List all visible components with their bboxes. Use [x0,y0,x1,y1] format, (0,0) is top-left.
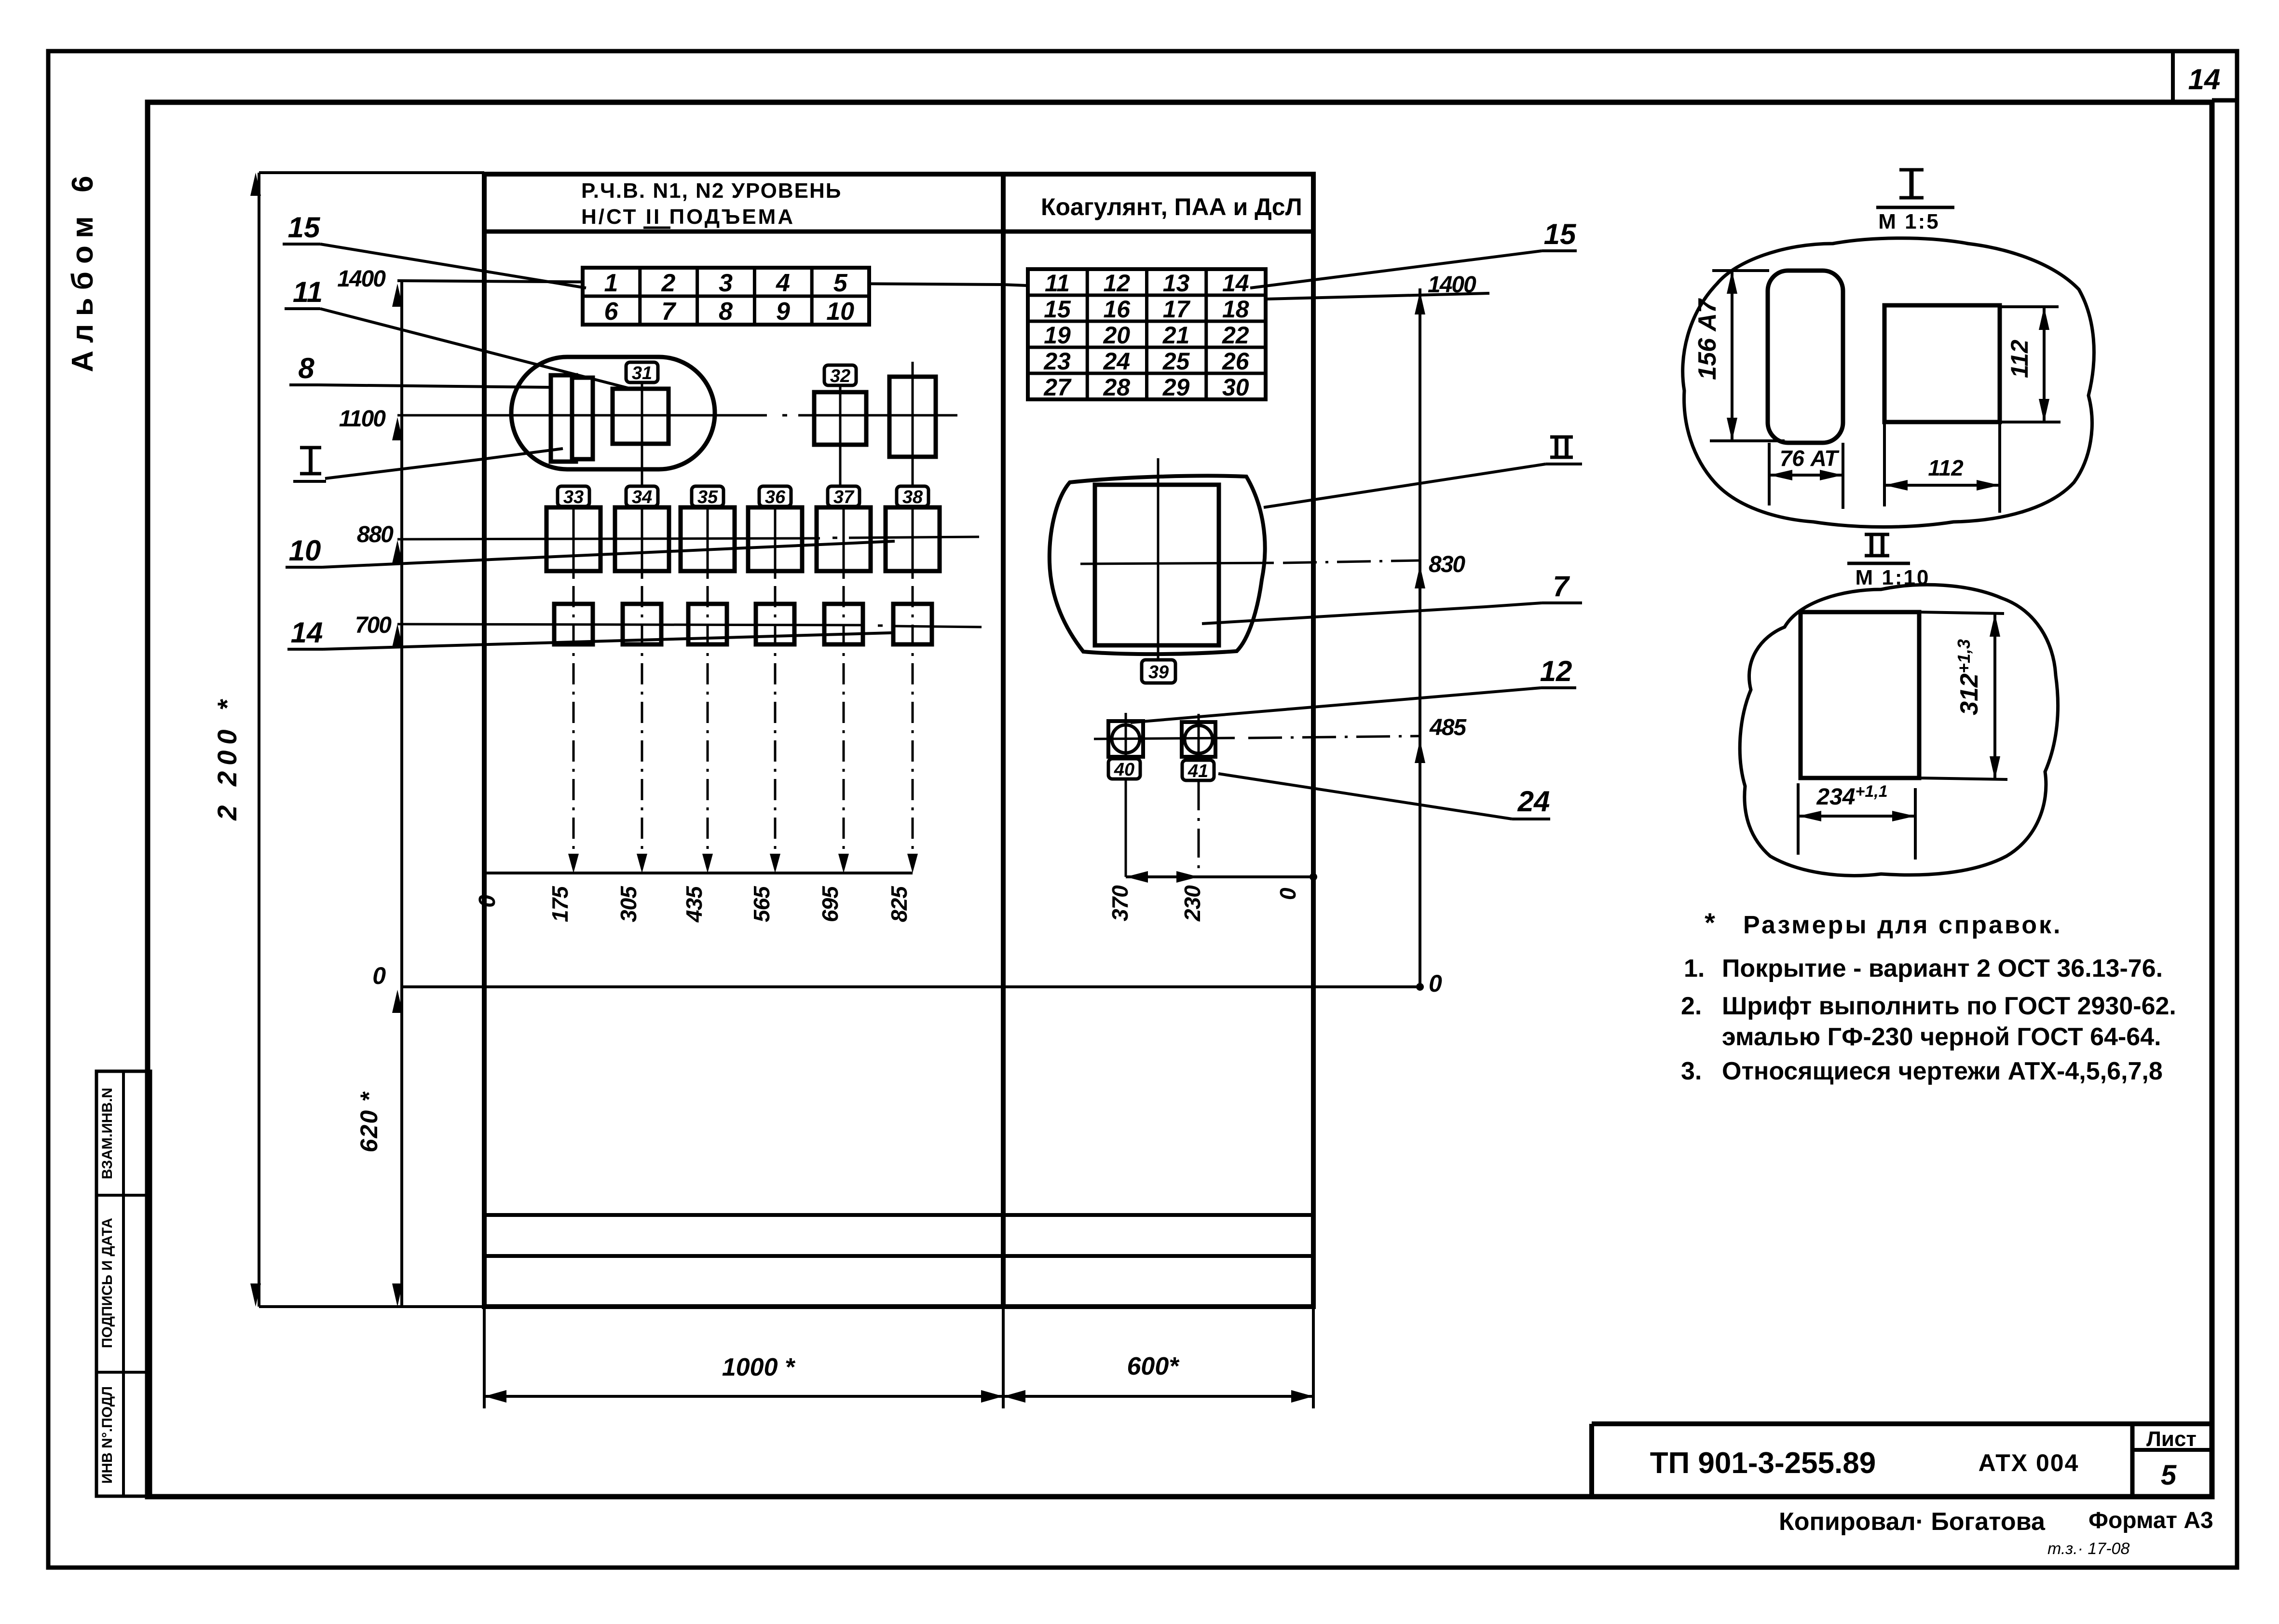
svg-text:31: 31 [632,363,652,383]
svg-text:Покрытие - вариант 2 ОСТ 36.13: Покрытие - вариант 2 ОСТ 36.13-76. [1722,955,2163,983]
detail I square right extensions [2000,305,2059,308]
svg-text:ВЗАМ.ИНВ.N: ВЗАМ.ИНВ.N [99,1088,115,1179]
svg-text:0: 0 [1275,887,1300,900]
svg-text:15: 15 [1544,218,1577,250]
title block outline [1592,1421,2211,1426]
svg-text:370: 370 [1107,885,1133,921]
column line tall rect [912,362,914,486]
svg-text:М 1:5: М 1:5 [1878,210,1939,233]
panel header separator [484,230,1313,234]
svg-text:1000 *: 1000 * [722,1353,796,1381]
svg-text:14: 14 [2188,63,2221,96]
centerline level 830 [1080,563,1274,564]
column line item 31 [641,382,643,486]
svg-text:16: 16 [1103,296,1131,323]
svg-text:435: 435 [682,886,707,923]
display 39 pillow outline [1050,476,1265,655]
label 41 [1182,760,1214,780]
detail I width dimension 76 AT [1769,474,1843,477]
svg-text:Формат А3: Формат А3 [2088,1508,2213,1533]
svg-text:14: 14 [1222,270,1249,297]
sheet number box top-right [2171,51,2175,100]
inner drawing frame [148,102,2212,1497]
svg-text:23: 23 [1043,348,1071,375]
svg-text:12: 12 [1540,655,1572,687]
coordinate baseline left panel [484,872,913,874]
knob 40 [1108,721,1143,757]
svg-text:112: 112 [2006,340,2033,378]
svg-text:ИНВ N°.ПОДЛ: ИНВ N°.ПОДЛ [99,1386,115,1484]
label 37 [828,486,860,506]
label 36 [759,486,791,506]
lower instrument box col 4 [756,604,794,644]
table cells 11-30 [1028,269,1266,399]
leader I detail mark [309,448,313,474]
svg-text:156 А7: 156 А7 [1693,298,1721,380]
label 39 [1142,660,1175,683]
svg-text:112: 112 [1928,455,1964,480]
right levels dimension line [1419,288,1421,987]
svg-text:230: 230 [1180,885,1205,922]
label 38 [897,486,928,506]
svg-text:1100: 1100 [339,406,386,432]
kick plate line 2 [484,1254,1313,1258]
svg-text:39: 39 [1148,662,1169,682]
panel front outline [484,174,1313,1307]
column line item 32 [839,392,842,486]
svg-text:0: 0 [475,895,500,908]
svg-text:13: 13 [1163,270,1190,297]
svg-text:1400: 1400 [337,266,386,292]
instrument box 37 [817,507,871,571]
zero level line [400,985,1420,988]
detail I square width extensions [1883,422,1886,506]
detail II window rectangle [1801,612,1919,778]
svg-text:19: 19 [1044,322,1071,349]
recorder window pair [551,375,576,462]
column centerline 6 [912,506,914,579]
svg-text:305: 305 [616,886,641,922]
svg-text:8: 8 [719,298,733,326]
centerline level 700 [397,624,863,625]
svg-text:10: 10 [289,534,321,567]
top extension line [259,171,484,174]
svg-text:28: 28 [1103,374,1130,401]
svg-text:2 200 *: 2 200 * [212,694,242,821]
svg-text:40: 40 [1114,760,1134,780]
svg-text:24: 24 [1517,785,1550,818]
svg-text:33: 33 [563,487,584,507]
svg-text:ПОДПИСЬ И ДАТА: ПОДПИСЬ И ДАТА [99,1218,115,1348]
column centerline 1 [573,506,575,579]
svg-text:24: 24 [1103,348,1130,375]
svg-text:Лист: Лист [2146,1427,2197,1451]
svg-text:830: 830 [1429,552,1465,577]
detail II height extension lines [1919,612,2004,614]
svg-text:Коагулянт, ПАА и ДсЛ: Коагулянт, ПАА и ДсЛ [1041,193,1302,220]
svg-text:Р.Ч.В. N1, N2 УРОВЕНЬ: Р.Ч.В. N1, N2 УРОВЕНЬ [581,179,842,203]
svg-text:Альбом 6: Альбом 6 [66,168,99,372]
svg-text:825: 825 [887,886,912,922]
svg-text:76 АТ: 76 АТ [1780,446,1840,471]
level line 1400 across panels [397,281,1003,285]
bottom extension line [259,1305,484,1308]
detail I square width dimension 112 [1884,484,2000,487]
svg-text:35: 35 [697,487,718,507]
instrument square 32 [814,392,866,445]
svg-text:17: 17 [1163,296,1191,323]
detail I blob outline [1683,238,2094,527]
detail I height dimension 156 A7 [1731,271,1733,441]
svg-text:26: 26 [1222,348,1250,375]
svg-text:7: 7 [1553,570,1570,602]
svg-text:3: 3 [719,269,733,297]
lower instrument box col 6 [893,604,932,644]
svg-text:18: 18 [1222,296,1249,323]
column centerline 5 [843,506,845,579]
kick plate line 1 [484,1213,1313,1217]
svg-text:700: 700 [355,613,392,638]
svg-text:9: 9 [776,298,790,326]
stamp column box [96,1071,150,1496]
svg-text:0: 0 [1429,970,1442,997]
centerline level 880 [397,538,820,539]
lower instrument box col 3 [688,604,727,644]
svg-text:695: 695 [818,886,843,922]
lower instrument box col 2 [623,604,661,644]
label 35 [692,486,723,506]
column centerline 3 [707,506,709,579]
column centerline 4 [774,506,777,579]
svg-text:т.з.· 17-08: т.з.· 17-08 [2047,1540,2129,1558]
svg-text:1: 1 [604,269,618,297]
panel divider [1001,174,1006,1307]
instrument box 35 [681,507,735,571]
detail II blob outline [1740,585,2058,875]
svg-text:2: 2 [661,269,675,297]
svg-text:Шрифт выполнить по ГОСТ 2930-6: Шрифт выполнить по ГОСТ 2930-62. [1722,992,2176,1020]
svg-text:175: 175 [547,886,573,922]
stamp divider 2 [96,1371,150,1374]
detail II title [1870,534,1873,556]
column centerline 2 [641,506,643,579]
svg-text:11: 11 [293,276,323,308]
svg-text:5: 5 [2161,1460,2177,1491]
detail II width extension lines [1797,783,1800,855]
width dimension line 1000 and 600 [483,1307,486,1408]
svg-text:2.: 2. [1681,992,1702,1020]
svg-text:7: 7 [661,298,676,326]
centerline level 485 [1094,738,1235,739]
svg-text:11: 11 [1045,270,1070,297]
detail I title [1910,170,1914,198]
svg-text:600*: 600* [1127,1352,1180,1380]
svg-text:8: 8 [298,352,314,384]
svg-text:29: 29 [1162,374,1190,401]
knob dimension verticals [1125,779,1127,877]
svg-text:880: 880 [357,522,394,547]
svg-text:30: 30 [1222,374,1249,401]
svg-text:27: 27 [1043,374,1072,401]
svg-text:34: 34 [632,487,652,507]
svg-text:485: 485 [1429,715,1467,740]
levels dimension line [400,281,403,1307]
svg-text:ТП 901-3-255.89: ТП 901-3-255.89 [1650,1447,1876,1480]
svg-text:1400: 1400 [1428,272,1476,298]
svg-text:15: 15 [1044,296,1071,323]
svg-text:20: 20 [1103,322,1130,349]
svg-text:565: 565 [749,886,774,922]
svg-text:37: 37 [833,487,855,507]
instrument box 33 [546,507,600,571]
svg-text:*: * [1705,907,1715,938]
leader II detail mark [1555,437,1558,457]
detail I square height dimension 112 [2043,307,2046,422]
svg-text:0: 0 [372,962,386,989]
svg-text:22: 22 [1222,322,1249,349]
detail I height extension lines [1712,269,1769,272]
stamp divider vertical [122,1071,125,1496]
svg-text:15: 15 [288,211,321,244]
lower instrument box col 5 [824,604,863,644]
svg-text:38: 38 [902,487,923,507]
instrument group I stadium outline [511,357,715,469]
svg-text:4: 4 [776,269,790,297]
detail II height dimension 312+1,3 [1993,614,1996,779]
label 32 [824,365,856,385]
svg-text:1.: 1. [1684,955,1705,983]
stamp divider 1 [96,1194,150,1197]
svg-text:36: 36 [765,487,786,507]
lamp table 1-10 grid [583,268,869,325]
svg-text:14: 14 [291,616,323,649]
svg-text:41: 41 [1187,761,1208,781]
svg-text:21: 21 [1162,322,1190,349]
instrument square 31 [613,389,669,444]
instrument box 34 [615,507,669,571]
instrument box 36 [748,507,802,571]
centerline level 1100 [397,414,767,417]
display 39 window [1095,485,1219,645]
svg-text:Относящиеся чертежи АТХ-4,5,6: Относящиеся чертежи АТХ-4,5,6,7,8 [1722,1057,2163,1085]
svg-text:5: 5 [833,269,848,297]
lower instrument box col 1 [554,604,593,644]
svg-text:12: 12 [1103,270,1130,297]
svg-text:32: 32 [830,366,850,386]
detail I window width extensions [1768,443,1771,505]
label 31 [626,362,658,382]
svg-text:3.: 3. [1681,1057,1702,1085]
svg-text:10: 10 [826,298,854,326]
svg-text:Размеры для справок.: Размеры для справок. [1743,911,2062,939]
label 33 [558,486,589,506]
label 40 [1108,759,1140,779]
knob 41 [1182,722,1215,757]
detail II width dimension 234+1,1 [1798,815,1915,818]
svg-text:Копировал· Богатова: Копировал· Богатова [1779,1508,2046,1536]
knob coordinate baseline [1126,875,1313,878]
instrument tall rectangle right [889,377,936,457]
label 34 [626,486,658,506]
svg-text:АТХ 004: АТХ 004 [1979,1449,2079,1476]
instrument box 38 [886,507,940,571]
detail I square [1884,305,2000,422]
detail I rounded window [1768,271,1843,443]
svg-text:25: 25 [1162,348,1190,375]
svg-text:эмалью ГФ-230 черной ГОСТ 64-: эмалью ГФ-230 черной ГОСТ 64-64. [1722,1023,2161,1051]
display 39 vertical centerline [1157,458,1160,660]
overall height dimension 2200 [258,173,260,1307]
svg-text:Н/СТ II ПОДЪЕМА: Н/СТ II ПОДЪЕМА [581,205,795,229]
svg-text:6: 6 [604,298,619,326]
svg-text:620 *: 620 * [355,1091,382,1152]
